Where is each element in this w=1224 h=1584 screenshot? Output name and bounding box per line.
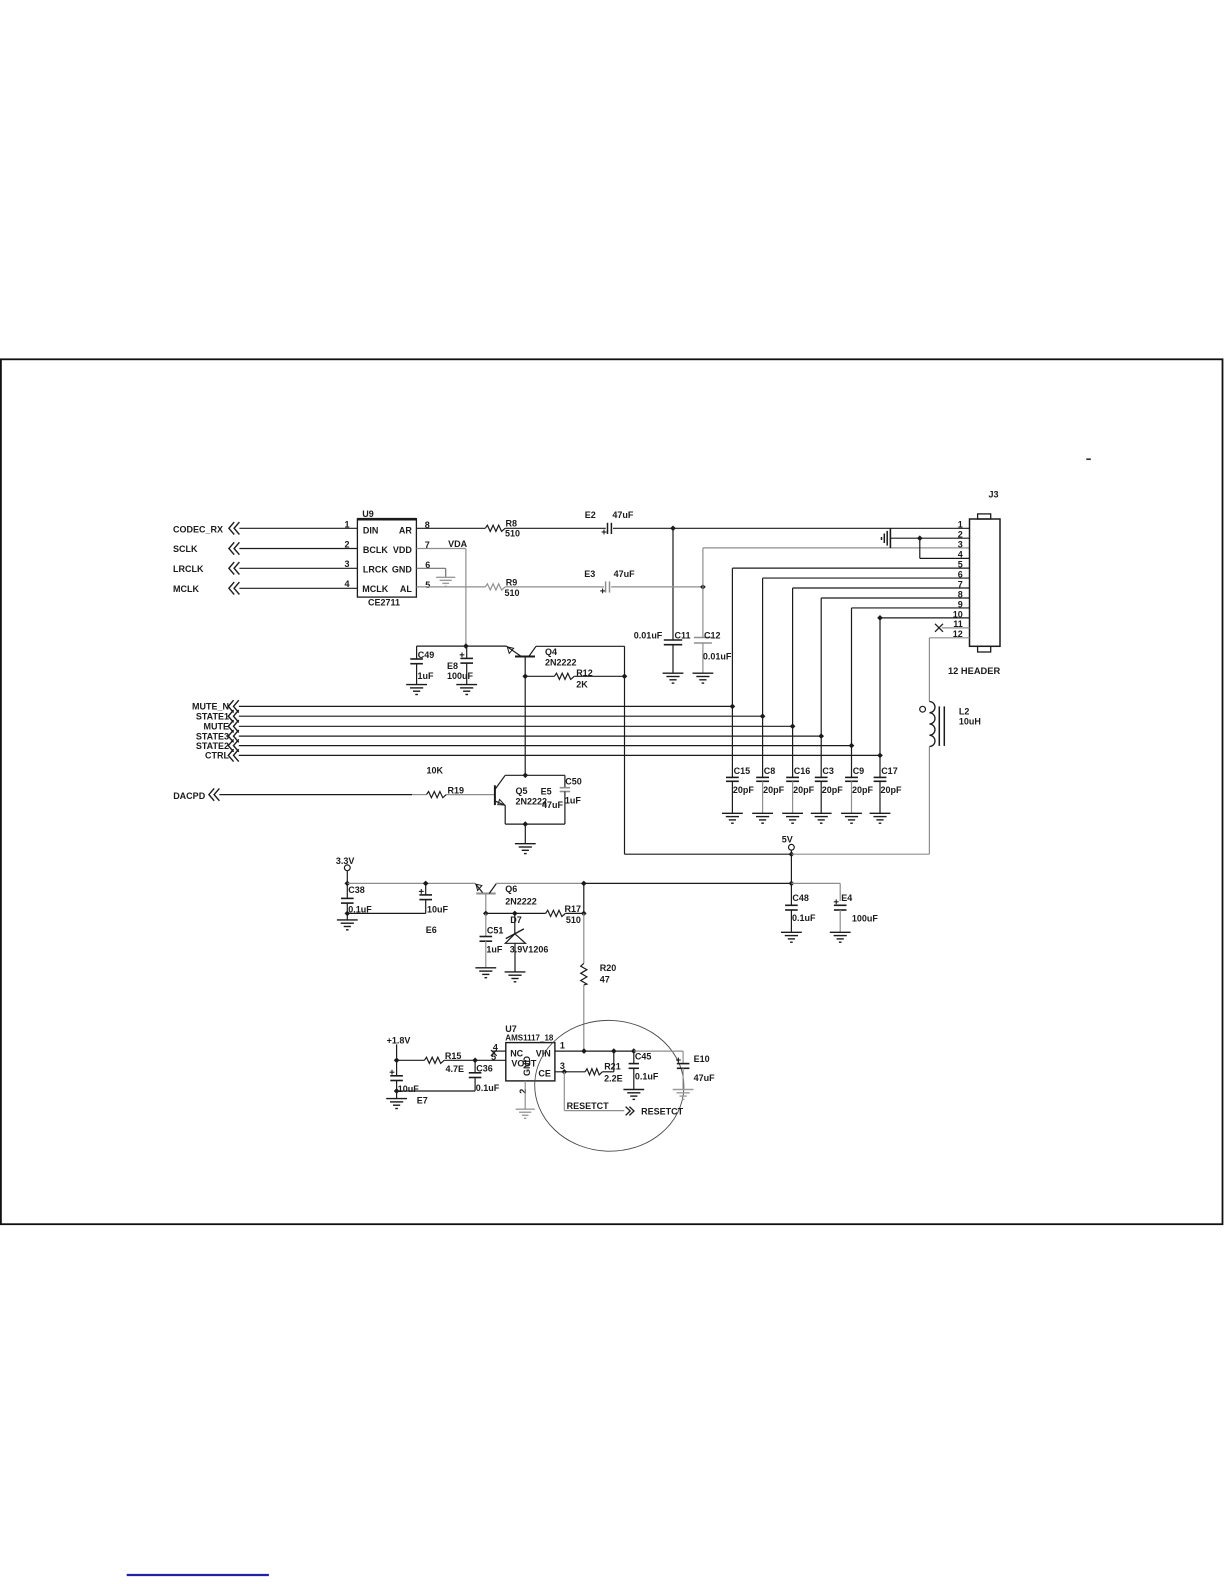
capacitor E5/C50 (560, 787, 570, 789)
capacitor E10 (polarized) (682, 1051, 684, 1064)
wire base node to R12 (525, 675, 554, 677)
U7 pin4 NC stub (492, 1050, 506, 1052)
RESETCT circuit ellipse (532, 1018, 686, 1154)
svg-text:47: 47 (600, 975, 610, 985)
ground below Q5 (515, 843, 536, 845)
wire E2 to J3 pin1 (613, 527, 970, 529)
svg-text:SCLK: SCLK (173, 544, 198, 554)
svg-text:E7: E7 (417, 1096, 428, 1106)
IC U9 box (357, 519, 416, 597)
junction STATE3 riser (818, 733, 824, 739)
J3 top mounting tab (978, 514, 991, 519)
transistor Q5 emitter (495, 801, 505, 806)
svg-text:STATE2: STATE2 (196, 741, 229, 751)
ground below C12 (693, 672, 714, 674)
ground at U9 GND pin (436, 576, 455, 578)
svg-text:1uF: 1uF (486, 945, 503, 955)
svg-text:1: 1 (958, 520, 963, 530)
ground below E4 (830, 931, 851, 933)
svg-text:R19: R19 (448, 785, 465, 795)
wire R12 to collector node (574, 675, 624, 677)
wire to J3 pin4 (920, 557, 970, 559)
junction J3 pin10 row (877, 615, 883, 621)
wire Q5 loop right upper (564, 775, 566, 787)
svg-text:R17: R17 (565, 904, 582, 914)
resistor R21 (585, 1069, 602, 1075)
svg-text:0.1uF: 0.1uF (635, 1072, 659, 1082)
wire riser J3 pin9 (851, 608, 853, 746)
resistor R20 (581, 963, 587, 985)
junction Q4 base / R12 (522, 673, 528, 679)
ground below C16 (782, 812, 803, 814)
wire R8 to E2 (505, 527, 606, 529)
svg-text:STATE1: STATE1 (196, 712, 229, 722)
svg-text:VDD: VDD (393, 545, 413, 555)
svg-text:RESETCT: RESETCT (567, 1101, 610, 1111)
wire MUTE row (239, 725, 793, 727)
junction STATE2 riser (849, 743, 855, 749)
wire C8 to ground (762, 781, 764, 813)
capacitor C11 (664, 639, 682, 641)
svg-text:47uF: 47uF (542, 800, 564, 810)
wire C38 bottom node (346, 903, 348, 913)
svg-text:1uF: 1uF (565, 796, 582, 806)
capacitor C51 (485, 913, 487, 936)
svg-text:12 HEADER: 12 HEADER (948, 666, 1000, 676)
wire J3 pin3 row (703, 547, 970, 549)
port chevron MCLK (234, 582, 239, 594)
junction C36 node (472, 1057, 478, 1063)
wire U9 VDD to VDA riser (416, 548, 466, 550)
wire C48 to ground (790, 910, 792, 932)
svg-text:1uF: 1uF (418, 671, 435, 681)
wire R9 to E3 (505, 586, 604, 588)
diode D7 (zener) (514, 913, 516, 933)
capacitor E8 (polarized) (466, 646, 468, 658)
capacitor C48 (790, 883, 792, 905)
svg-text:+1.8V: +1.8V (387, 1036, 411, 1046)
svg-text:Q4: Q4 (545, 647, 557, 657)
port chevron MUTE (234, 720, 239, 732)
ground below C51 (475, 967, 496, 969)
wire C3 riser (820, 736, 822, 777)
junction Q6 base / R17 row (483, 911, 489, 917)
junction C45 node (631, 1048, 637, 1054)
ground below C8 (752, 812, 773, 814)
port chevron STATE3 (234, 730, 239, 742)
transistor Q6 base bar (476, 893, 495, 895)
capacitor E4 (polarized) (834, 904, 847, 906)
frame border (1, 359, 1223, 1224)
svg-text:DIN: DIN (363, 526, 379, 536)
wire +1.8V node to R15 (397, 1059, 425, 1061)
wire J3 pin12 to L2 (929, 637, 969, 639)
svg-text:E6: E6 (426, 925, 437, 935)
svg-text:J3: J3 (989, 490, 999, 500)
transistor Q6 emitter (475, 884, 483, 894)
svg-text:0.01uF: 0.01uF (703, 652, 732, 662)
wire U9 AR to R8 (416, 527, 485, 529)
ground below C3 (811, 812, 832, 814)
capacitor C16 (786, 776, 799, 778)
capacitor C12 (694, 637, 712, 639)
svg-text:MCLK: MCLK (362, 584, 388, 594)
wire collector node vertical to 5V row (624, 646, 626, 854)
wire collector node to 5V/C48 node (584, 882, 792, 884)
wire E4 to ground (839, 910, 841, 932)
ground below C15 (722, 812, 743, 814)
svg-text:C36: C36 (476, 1063, 493, 1073)
junction Q5 collector node (522, 772, 528, 778)
wire E10 to ground (682, 1068, 684, 1089)
ground below E10 (673, 1089, 694, 1091)
wire +1.8V stub (396, 1044, 398, 1060)
wire RESETCT drop (563, 1072, 565, 1111)
svg-text:MUTE: MUTE (204, 722, 230, 732)
wire E6 bottom (425, 900, 427, 914)
svg-text:C17: C17 (881, 766, 898, 776)
junction E2/C11 node (670, 525, 676, 531)
ground below C45 (623, 1089, 644, 1091)
wire 5V stub (790, 850, 792, 854)
wire riser J3 pin8 (820, 598, 822, 736)
ground below C17 (870, 812, 891, 814)
svg-text:AL: AL (400, 584, 412, 594)
blue underline mark (127, 1574, 269, 1576)
wire C12 riser (702, 587, 704, 638)
wire R21 to riser (602, 1071, 614, 1073)
svg-text:VDA: VDA (448, 539, 468, 549)
junction MUTE riser (790, 723, 796, 729)
svg-text:0.1uF: 0.1uF (792, 913, 816, 923)
svg-text:C48: C48 (792, 893, 809, 903)
wire STATE1 row (239, 715, 763, 717)
wire 5V row from collector vertical (625, 853, 792, 855)
wire VDA node row (417, 645, 507, 647)
L2 phase dot circle (920, 706, 926, 712)
junction 5V node (789, 851, 795, 857)
wire C12 node riser to J3 pin3 row (702, 548, 704, 587)
svg-text:Q5: Q5 (516, 786, 528, 796)
U7 GND pin stub (524, 1081, 526, 1109)
wire R17 node to R20 (583, 913, 585, 963)
capacitor C49 (416, 646, 418, 659)
svg-text:20pF: 20pF (733, 785, 755, 795)
junction R21 riser node (611, 1048, 617, 1054)
junction C48 node (789, 881, 795, 887)
transistor Q6 collector (489, 884, 496, 894)
wire E7 bottom row to C36 bottom (396, 1080, 398, 1091)
svg-text:10uF: 10uF (398, 1084, 420, 1094)
wire U9 GND pin stub (416, 567, 445, 569)
junction VDA/E8 node (463, 643, 469, 649)
wire C17 to ground (879, 781, 881, 813)
wire riser J3 pin10 (879, 618, 881, 756)
wire DACPD to R19 (219, 794, 412, 796)
inductor L2 winding (929, 702, 935, 747)
wire riser J3 pin6 (762, 578, 764, 716)
svg-text:E8: E8 (447, 661, 458, 671)
svg-text:C38: C38 (348, 885, 365, 895)
wire VDA riser down (465, 549, 467, 647)
svg-text:C8: C8 (764, 766, 776, 776)
wire Q4 base down (524, 657, 526, 677)
wire chassis to J3 pin2 (890, 537, 969, 539)
wire STATE2 row (239, 745, 852, 747)
wire D7 to ground (514, 943, 516, 971)
junction D7 node (512, 911, 518, 917)
port chevron CTRL (234, 749, 239, 761)
wire C15 riser (731, 706, 733, 777)
wire J3 pin12 riser to L2 (928, 638, 930, 702)
svg-text:VIN: VIN (536, 1048, 551, 1058)
wire MCLK to U9 MCLK (239, 587, 357, 589)
svg-text:MUTE_N: MUTE_N (192, 702, 229, 712)
svg-text:E3: E3 (584, 569, 595, 579)
wire STATE3 row (239, 735, 821, 737)
resistor R19 (427, 792, 447, 798)
port chevron STATE1 (234, 710, 239, 722)
wire C17 riser (879, 755, 881, 777)
svg-text:0.1uF: 0.1uF (476, 1083, 500, 1093)
svg-text:CODEC_RX: CODEC_RX (173, 524, 223, 534)
capacitor E6 (polarized) (425, 883, 427, 895)
capacitor E7 (polarized) (396, 1060, 398, 1076)
junction RESETCT node (561, 1069, 567, 1075)
junction E7 node (394, 1057, 400, 1063)
ground below E7 (386, 1098, 407, 1100)
wire R17 to node (565, 912, 583, 914)
svg-text:MCLK: MCLK (173, 584, 199, 594)
U7 pin4 X no-connect mark (491, 1050, 497, 1056)
junction R17/R20 node (581, 911, 587, 917)
wire Q4 base node down to Q5 collector (524, 676, 526, 775)
junction R12 / collector vertical (622, 673, 628, 679)
transistor Q4 base bar (515, 656, 535, 658)
junction collector/R17 node (581, 881, 587, 887)
ground below C38 (337, 919, 358, 921)
ground below C49 (406, 684, 427, 686)
wire Q5 loop bottom (505, 823, 565, 825)
capacitor E3 (polarized) (605, 581, 607, 592)
wire E3 to C12 node (611, 586, 703, 588)
wire C45 to ground (633, 1068, 635, 1089)
J3 bottom mounting tab (978, 646, 991, 652)
regulator U7 box (506, 1043, 555, 1081)
junction Q5 emitter node (522, 821, 528, 827)
svg-text:2N2222: 2N2222 (505, 896, 537, 906)
wire 3.3V rail to Q6 emitter (347, 882, 475, 884)
stray dash mark (1086, 458, 1091, 460)
svg-text:10uF: 10uF (427, 904, 449, 914)
wire C12 to ground (702, 643, 704, 673)
ground below D7 (505, 971, 526, 973)
wire Q5 loop left (504, 805, 506, 824)
svg-text:10uH: 10uH (959, 717, 981, 727)
svg-text:C50: C50 (565, 776, 582, 786)
svg-text:CTRL: CTRL (205, 751, 229, 761)
svg-text:C12: C12 (704, 630, 721, 640)
svg-text:BCLK: BCLK (363, 545, 388, 555)
svg-text:C45: C45 (635, 1051, 652, 1061)
svg-text:CE2711: CE2711 (368, 598, 400, 608)
port chevron DACPD (214, 788, 219, 800)
port chevron STATE2 (234, 739, 239, 751)
capacitor C36 (474, 1060, 476, 1073)
wire R21 riser to VIN row (613, 1051, 615, 1072)
svg-text:20pF: 20pF (763, 785, 785, 795)
wire RESETCT row (564, 1110, 624, 1112)
svg-text:C51: C51 (487, 926, 504, 936)
wire C48 node to E4 (791, 882, 840, 884)
ground below C11 (663, 672, 684, 674)
wire C9 to ground (851, 781, 853, 813)
transistor Q4 emitter (507, 646, 522, 656)
svg-text:3: 3 (958, 540, 963, 550)
transistor Q5 base bar (494, 785, 496, 805)
wire CODEC_RX to U9 DIN (239, 527, 357, 529)
transistor Q4 collector (529, 646, 536, 656)
svg-text:AMS1117_18: AMS1117_18 (505, 1033, 554, 1042)
svg-text:E2: E2 (585, 510, 596, 520)
svg-text:100uF: 100uF (852, 913, 879, 923)
svg-text:5: 5 (425, 580, 430, 590)
svg-text:1: 1 (560, 1041, 565, 1051)
wire 3.3V stub (346, 871, 348, 884)
wire C11 to ground (672, 645, 674, 673)
wire C51 to ground (485, 941, 487, 967)
svg-text:2.2E: 2.2E (604, 1073, 623, 1083)
wire 5V down to C48 node (790, 854, 792, 883)
port chevron RESETCT out (626, 1107, 631, 1116)
wire C16 riser (792, 726, 794, 777)
wire C38 bottom to E6 bottom (347, 912, 425, 914)
svg-text:5V: 5V (782, 835, 793, 845)
svg-text:C9: C9 (853, 766, 865, 776)
wire C16 to ground (792, 781, 794, 813)
wire R19 to Q5 base (446, 794, 495, 796)
svg-text:D7: D7 (510, 915, 522, 925)
L2 core bars (938, 706, 940, 746)
svg-text:R9: R9 (506, 577, 518, 587)
svg-text:4: 4 (958, 550, 963, 560)
svg-text:47uF: 47uF (612, 510, 634, 520)
wire Q5 loop right lower (564, 792, 566, 825)
svg-text:AR: AR (399, 526, 412, 536)
wire E8 to ground (466, 663, 468, 684)
port chevron LRCLK (234, 562, 239, 574)
capacitor C45 (633, 1051, 635, 1064)
svg-text:2: 2 (958, 530, 963, 540)
capacitor C15 (726, 776, 739, 778)
svg-text:CE: CE (538, 1069, 551, 1079)
svg-text:C49: C49 (418, 650, 435, 660)
wire C15 to ground (731, 781, 733, 813)
capacitor C8 (756, 776, 769, 778)
resistor R9 (485, 584, 505, 590)
svg-text:2N2222: 2N2222 (545, 658, 577, 668)
5V node circle (789, 844, 795, 850)
wire U9 AL to R9 (416, 586, 485, 588)
capacitor C38 (346, 883, 348, 898)
svg-text:3.3V: 3.3V (336, 856, 355, 866)
port chevron MUTE_N (234, 700, 239, 712)
wire E7 node to ground (396, 1091, 398, 1098)
junction R20/VIN node (581, 1048, 587, 1054)
junction E3/C12 node (700, 584, 706, 590)
junction E7 ground node (394, 1088, 400, 1094)
capacitor E2 (polarized) (607, 523, 609, 534)
wire C9 riser (851, 746, 853, 778)
wire riser J3 pin5 (731, 568, 733, 706)
capacitor C9 (845, 776, 858, 778)
wire C11 riser (672, 528, 674, 640)
svg-text:GND: GND (522, 1056, 532, 1077)
wire C8 riser (762, 716, 764, 777)
wire pin2 to pin4 vertical (919, 538, 921, 558)
wire 3.3V rail Q6 collector segment (496, 882, 584, 884)
wire R15 to U7 VOUT (444, 1059, 506, 1061)
svg-text:C11: C11 (675, 630, 691, 640)
svg-text:47uF: 47uF (694, 1073, 716, 1083)
svg-text:510: 510 (505, 529, 520, 539)
junction E6 node (423, 881, 429, 887)
svg-text:C15: C15 (734, 766, 751, 776)
svg-text:Q6: Q6 (505, 884, 517, 894)
port chevron SCLK (234, 542, 239, 554)
junction CTRL riser (877, 753, 883, 759)
svg-text:100uF: 100uF (447, 671, 474, 681)
svg-text:2K: 2K (576, 680, 588, 690)
wire Q6 base down (485, 894, 487, 914)
chassis/earth symbol at J3 pins 1-3 (889, 528, 891, 548)
resistor R8 (485, 525, 505, 531)
wire MUTE_N row (239, 705, 733, 707)
wire R17 node up to rail (583, 883, 585, 913)
svg-text:C3: C3 (822, 766, 834, 776)
svg-text:10K: 10K (427, 766, 444, 776)
svg-text:20pF: 20pF (881, 785, 903, 795)
svg-text:LRCK: LRCK (363, 565, 388, 575)
port chevron CODEC_RX (234, 522, 239, 534)
svg-text:R15: R15 (445, 1051, 462, 1061)
junction C38 bottom (344, 911, 350, 917)
svg-text:4.7E: 4.7E (446, 1064, 465, 1074)
wire L2 bottom to 5V row (928, 747, 930, 855)
wire VIN row to E10 (634, 1050, 683, 1052)
svg-text:20pF: 20pF (822, 785, 844, 795)
svg-text:510: 510 (566, 915, 581, 925)
wire C49 to ground (416, 664, 418, 685)
svg-text:C16: C16 (794, 766, 811, 776)
J3 pin11 X no-connect mark (935, 624, 943, 632)
transistor Q5 collector (495, 775, 505, 789)
svg-text:E5: E5 (541, 787, 552, 797)
svg-text:R21: R21 (604, 1062, 621, 1072)
ground below C9 (841, 812, 862, 814)
connector J3 body (970, 519, 1001, 646)
capacitor C3 (815, 776, 828, 778)
3.3V node circle (344, 865, 350, 871)
svg-text:E4: E4 (841, 893, 852, 903)
junction MUTE_N riser (730, 704, 736, 710)
svg-text:2: 2 (518, 1089, 528, 1094)
resistor R12 (554, 673, 574, 679)
wire SCLK to U9 BCLK (239, 548, 357, 550)
junction STATE1 riser (760, 713, 766, 719)
wire LRCLK to U9 LRCK (239, 567, 357, 569)
svg-text:510: 510 (505, 588, 520, 598)
